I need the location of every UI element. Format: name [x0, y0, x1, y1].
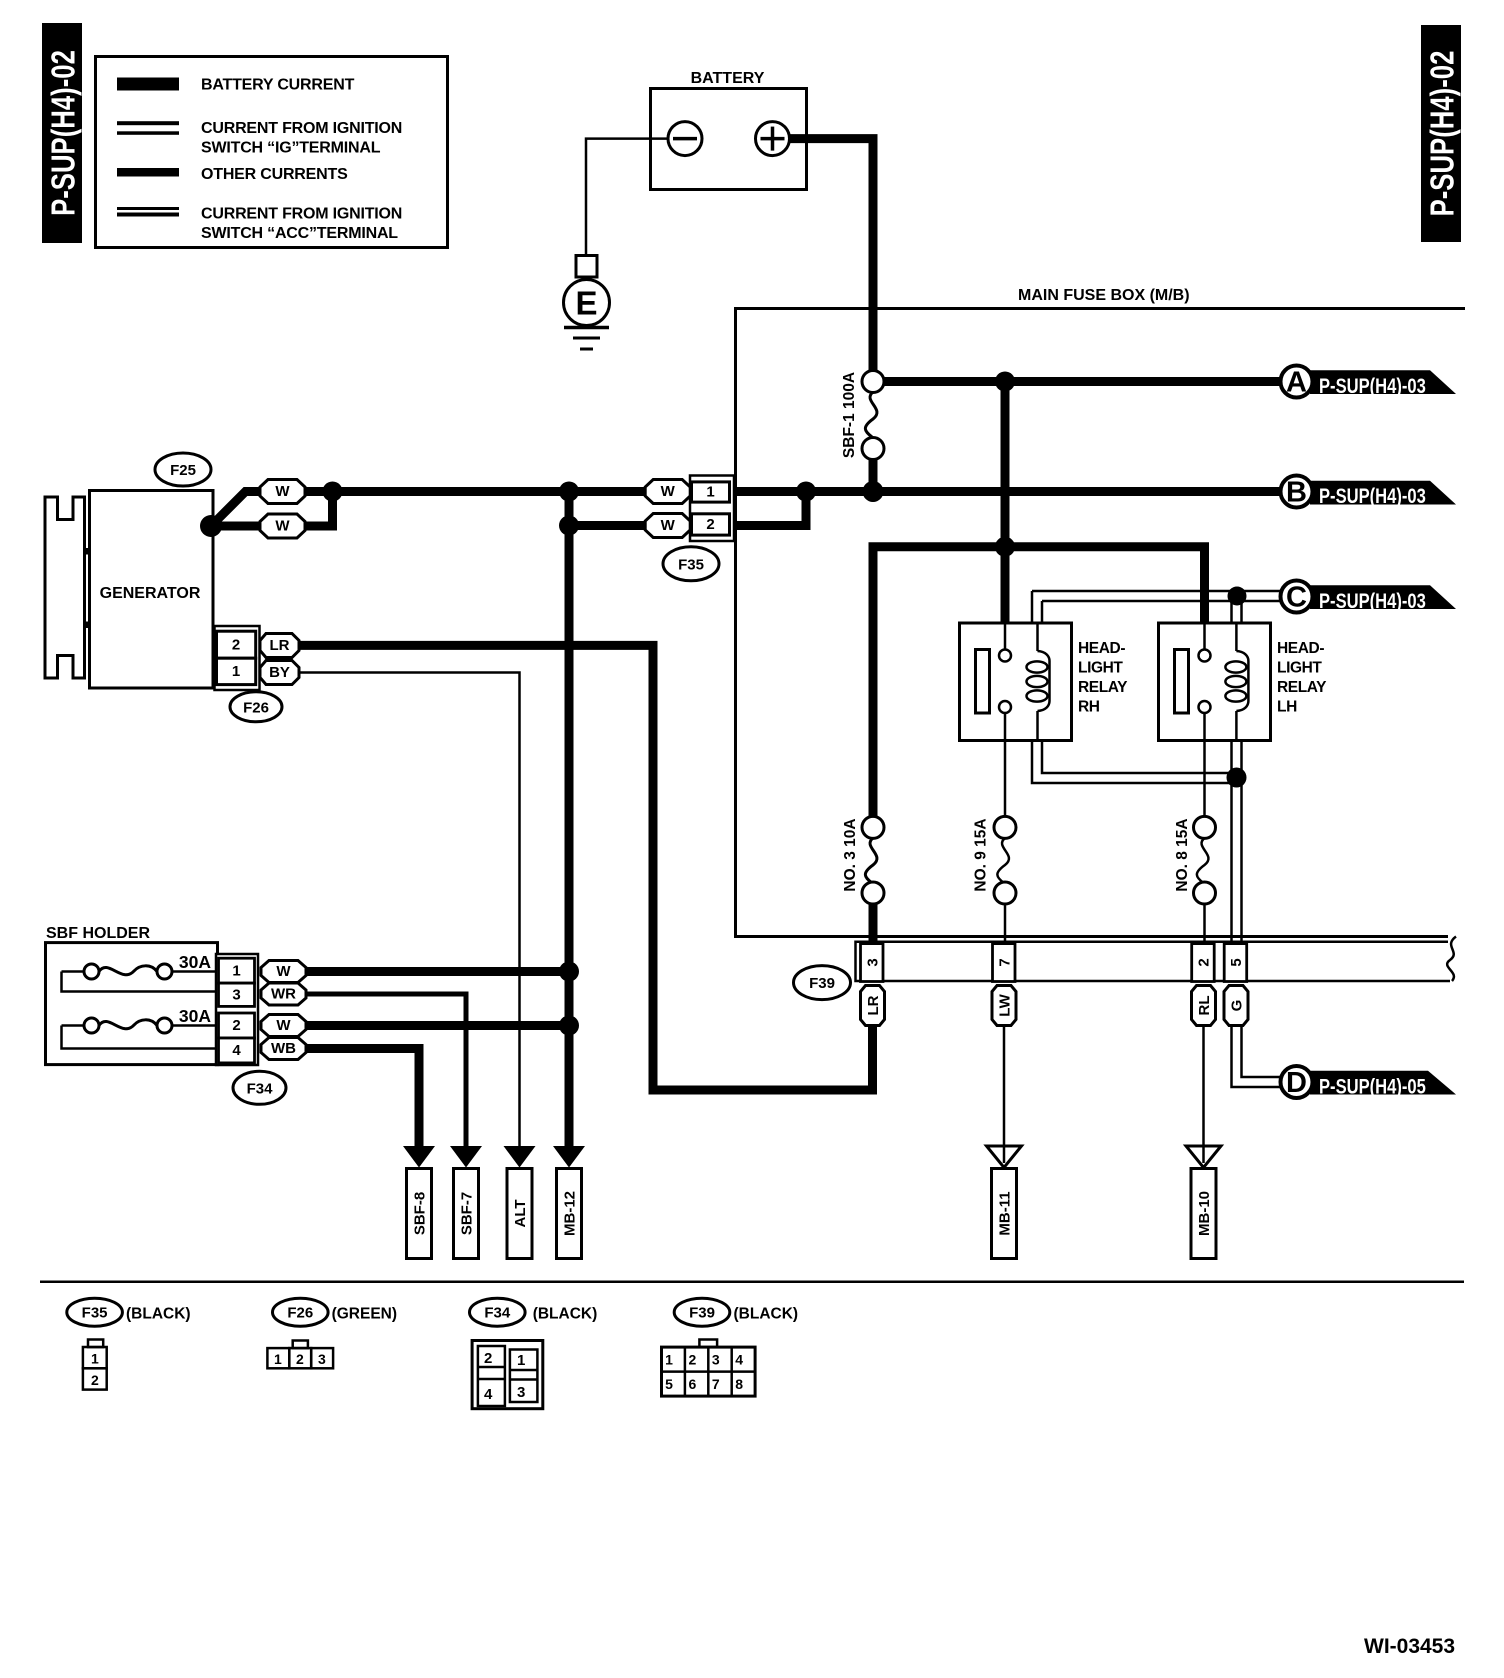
F25 label ellipse — [155, 453, 211, 486]
svg-text:LR: LR — [865, 995, 882, 1015]
ground E — [564, 256, 610, 350]
banner B P-SUP(H4)-03 — [1281, 476, 1457, 509]
svg-text:BY: BY — [269, 664, 290, 681]
wire color label WR — [261, 983, 306, 1005]
wire color label W (generator bottom) — [260, 514, 305, 538]
svg-text:(BLACK): (BLACK) — [734, 1306, 799, 1323]
svg-text:2: 2 — [484, 1350, 492, 1367]
battery minus terminal — [668, 122, 702, 156]
svg-text:RH: RH — [1078, 699, 1100, 716]
svg-text:SWITCH “IG”TERMINAL: SWITCH “IG”TERMINAL — [201, 140, 381, 157]
connector F39 bus outline — [856, 937, 1457, 982]
svg-text:1: 1 — [232, 663, 240, 680]
wire RL thin to MB-10 — [1202, 1026, 1205, 1147]
svg-text:3: 3 — [864, 958, 881, 966]
svg-text:1: 1 — [91, 1351, 99, 1367]
svg-text:W: W — [276, 963, 291, 980]
battery — [651, 70, 807, 190]
connector legend F34 (BLACK) — [470, 1298, 598, 1409]
svg-text:P-SUP(H4)-03: P-SUP(H4)-03 — [1319, 485, 1426, 508]
generator — [90, 491, 214, 689]
svg-text:F35: F35 — [678, 556, 704, 573]
svg-text:4: 4 — [232, 1042, 241, 1059]
svg-text:(GREEN): (GREEN) — [332, 1306, 397, 1323]
svg-text:NO. 8 15A: NO. 8 15A — [1174, 818, 1191, 891]
svg-text:6: 6 — [689, 1376, 697, 1392]
wire B (generator W wires to banner B) — [211, 492, 1281, 527]
node wire B / MB-12 — [559, 482, 579, 502]
svg-text:8: 8 — [735, 1376, 743, 1392]
svg-text:RELAY: RELAY — [1078, 679, 1128, 696]
svg-text:F34: F34 — [247, 1080, 274, 1097]
svg-text:F39: F39 — [689, 1305, 715, 1322]
svg-text:WR: WR — [271, 986, 296, 1003]
svg-text:2: 2 — [232, 637, 240, 654]
wire WB to SBF-8 — [306, 1049, 419, 1147]
svg-text:7: 7 — [712, 1376, 720, 1392]
F35 label ellipse — [663, 547, 719, 581]
wire battery minus to ground — [586, 139, 668, 256]
svg-text:W: W — [661, 517, 676, 534]
headlight relay LH — [1159, 623, 1328, 817]
title bar right P-SUP(H4)-02 — [1421, 25, 1461, 242]
svg-text:3: 3 — [232, 987, 240, 1004]
arrow SBF-8 — [403, 1146, 435, 1259]
headlight relay RH — [960, 623, 1129, 817]
svg-text:1: 1 — [517, 1352, 525, 1369]
wire WR to SBF-7 — [306, 994, 466, 1146]
bus pin 7 — [993, 944, 1016, 982]
wire battery plus to SBF-1 (thick) — [790, 139, 874, 371]
svg-text:P-SUP(H4)-05: P-SUP(H4)-05 — [1319, 1076, 1426, 1099]
svg-text:P-SUP(H4)-02: P-SUP(H4)-02 — [1425, 51, 1462, 217]
fuse NO. 3 10A — [842, 816, 884, 941]
svg-text:MB-11: MB-11 — [997, 1191, 1014, 1235]
svg-text:HEAD-: HEAD- — [1277, 640, 1324, 657]
connector F34 pin column — [216, 954, 258, 1065]
svg-text:1: 1 — [706, 484, 714, 501]
wire W pin1 to MB-12 vertical (thick) — [306, 967, 569, 976]
svg-text:W: W — [661, 483, 676, 500]
node coil return junction — [1227, 768, 1247, 788]
F26 label ellipse — [230, 692, 282, 722]
svg-text:SWITCH “ACC”TERMINAL: SWITCH “ACC”TERMINAL — [201, 225, 398, 242]
wire color label W (F34 pin2) — [261, 1015, 306, 1037]
svg-text:2: 2 — [706, 516, 714, 533]
connector F35 — [690, 476, 734, 542]
svg-text:SBF-7: SBF-7 — [459, 1192, 476, 1235]
wire C double line horizontal (IG style) — [1032, 590, 1281, 593]
svg-text:SBF-1 100A: SBF-1 100A — [841, 372, 858, 458]
svg-text:HEAD-: HEAD- — [1078, 640, 1125, 657]
node SBF-1 on wire B — [863, 481, 884, 502]
wire G double line to banner D — [1232, 1026, 1282, 1088]
svg-text:RELAY: RELAY — [1277, 679, 1327, 696]
wire LW thin to MB-11 — [1003, 1026, 1006, 1147]
connector legend F26 (GREEN) — [267, 1298, 397, 1368]
legend ACC double line — [117, 207, 179, 210]
svg-text:1: 1 — [274, 1351, 282, 1367]
banner C P-SUP(H4)-03 — [1281, 581, 1457, 614]
svg-text:P-SUP(H4)-03: P-SUP(H4)-03 — [1319, 590, 1426, 613]
wire A (battery current, SBF-1 to banner A) — [882, 377, 1281, 386]
svg-text:2: 2 — [296, 1351, 304, 1367]
F39 label ellipse — [794, 966, 851, 1000]
fuse NO. 9 15A — [973, 816, 1017, 941]
svg-text:ALT: ALT — [512, 1199, 529, 1227]
main fuse box — [736, 287, 1466, 937]
svg-text:G: G — [1229, 1000, 1246, 1012]
svg-text:NO. 9 15A: NO. 9 15A — [973, 818, 990, 891]
svg-text:1: 1 — [665, 1352, 673, 1368]
svg-text:F39: F39 — [809, 975, 835, 992]
svg-text:MB-10: MB-10 — [1196, 1191, 1213, 1236]
bus pin 3 — [861, 944, 884, 982]
wire from node A down to relay feed — [1001, 382, 1010, 547]
wire LR thick path pin3 to F26 LR — [299, 645, 873, 1090]
wire color label RL — [1192, 986, 1216, 1026]
wire color label LR (F26) — [260, 634, 299, 658]
svg-text:30A: 30A — [179, 952, 211, 972]
svg-text:CURRENT FROM IGNITION: CURRENT FROM IGNITION — [201, 206, 402, 223]
bus pin 5 — [1224, 944, 1247, 982]
generator edge nubs — [85, 548, 90, 555]
svg-text:2: 2 — [232, 1017, 240, 1034]
node W join — [323, 482, 343, 502]
svg-text:A: A — [1286, 367, 1307, 399]
legend other currents bar — [117, 168, 179, 177]
wire F35 pin2 riser — [569, 492, 806, 526]
wire C double line down to relay LH coil and bus pin 5 — [1230, 592, 1233, 942]
banner D P-SUP(H4)-05 — [1281, 1066, 1457, 1099]
SBF holder fuse 1 30A — [62, 952, 219, 992]
fuse SBF-1 100A — [841, 371, 884, 497]
node wire C junction — [1228, 587, 1247, 606]
svg-text:W: W — [275, 483, 290, 500]
wire BY thin to ALT — [299, 673, 520, 1147]
wire color label WB — [261, 1038, 306, 1060]
svg-text:4: 4 — [735, 1352, 743, 1368]
svg-text:F26: F26 — [243, 699, 269, 716]
wire color label LR — [861, 986, 885, 1026]
svg-text:W: W — [275, 518, 290, 535]
svg-text:2: 2 — [689, 1352, 697, 1368]
connector legend F39 (BLACK) — [662, 1298, 799, 1396]
relay feed wire (thick) — [873, 547, 1205, 817]
node W pin2 — [559, 1016, 579, 1036]
wire relay coil returns double line RH — [1032, 741, 1238, 784]
fuse NO. 8 15A — [1174, 816, 1216, 941]
svg-text:CURRENT FROM IGNITION: CURRENT FROM IGNITION — [201, 120, 402, 137]
svg-text:P-SUP(H4)-02: P-SUP(H4)-02 — [46, 50, 83, 216]
svg-text:RL: RL — [1196, 996, 1213, 1016]
svg-text:7: 7 — [996, 958, 1013, 966]
SBF holder fuse 2 30A — [62, 1006, 219, 1049]
connector F26 on generator — [215, 626, 260, 690]
legend IG double line — [117, 121, 179, 125]
svg-text:F26: F26 — [287, 1305, 313, 1322]
arrow SBF-7 — [450, 1146, 482, 1259]
svg-text:F34: F34 — [484, 1305, 511, 1322]
wire generator W lower branch — [211, 492, 333, 527]
arrow MB-12 — [553, 1146, 585, 1259]
svg-text:5: 5 — [665, 1376, 673, 1392]
title bar left P-SUP(H4)-02 — [42, 23, 82, 243]
banner A P-SUP(H4)-03 — [1281, 366, 1457, 399]
svg-text:MB-12: MB-12 — [562, 1191, 579, 1236]
arrow MB-11 (hollow) — [987, 1146, 1022, 1259]
bus pin 2 — [1192, 944, 1215, 982]
generator bracket — [45, 497, 85, 678]
node on wire A — [995, 372, 1015, 392]
svg-text:D: D — [1286, 1067, 1307, 1099]
wire color label W (F35 pin1) — [645, 480, 690, 504]
svg-text:LW: LW — [997, 993, 1014, 1016]
svg-text:P-SUP(H4)-03: P-SUP(H4)-03 — [1319, 375, 1426, 398]
svg-text:1: 1 — [232, 963, 240, 980]
svg-text:BATTERY: BATTERY — [691, 70, 765, 87]
svg-text:LIGHT: LIGHT — [1277, 660, 1322, 677]
legend battery current bar — [117, 78, 179, 91]
svg-text:LIGHT: LIGHT — [1078, 660, 1123, 677]
legend box — [96, 57, 448, 248]
arrow MB-10 (hollow) — [1186, 1146, 1221, 1259]
node relay feed T — [995, 537, 1015, 557]
svg-text:F25: F25 — [170, 462, 196, 479]
svg-text:W: W — [276, 1017, 291, 1034]
node W pin1 — [559, 962, 579, 982]
wire C double line down to relay RH coil — [1031, 591, 1034, 623]
wire color label LW — [992, 986, 1016, 1026]
node generator output — [200, 515, 222, 537]
svg-text:(BLACK): (BLACK) — [126, 1306, 191, 1323]
svg-text:C: C — [1286, 582, 1307, 614]
svg-text:F35: F35 — [82, 1305, 108, 1322]
svg-text:SBF HOLDER: SBF HOLDER — [46, 925, 150, 942]
wire color label W (F34 pin1) — [261, 961, 306, 983]
wire color label W (F35 pin2) — [645, 514, 690, 538]
wire color label BY (F26) — [260, 661, 299, 685]
svg-text:BATTERY CURRENT: BATTERY CURRENT — [201, 77, 355, 94]
svg-text:WI-03453: WI-03453 — [1364, 1635, 1455, 1658]
wire MB-12 vertical — [565, 492, 574, 1147]
svg-text:LR: LR — [270, 637, 290, 654]
svg-text:(BLACK): (BLACK) — [533, 1306, 598, 1323]
svg-text:B: B — [1286, 477, 1307, 509]
F34 label ellipse — [233, 1071, 286, 1104]
node pin2 on MB-12 vertical — [559, 516, 579, 536]
svg-text:NO. 3 10A: NO. 3 10A — [842, 818, 859, 891]
svg-text:3: 3 — [517, 1384, 525, 1401]
svg-text:LH: LH — [1277, 699, 1297, 716]
node pin2 riser on wire B — [796, 482, 816, 502]
arrow ALT — [504, 1146, 536, 1259]
svg-text:SBF-8: SBF-8 — [412, 1192, 429, 1235]
svg-text:30A: 30A — [179, 1006, 211, 1026]
relay RH feed branch — [1001, 547, 1010, 623]
svg-text:5: 5 — [1228, 958, 1245, 966]
wire W pin2 to MB-12 vertical (thick) — [306, 1021, 569, 1030]
bottom separator line — [40, 1281, 1464, 1284]
wire color label G — [1224, 986, 1248, 1026]
wire color label W (generator top) — [260, 480, 305, 504]
svg-text:2: 2 — [1195, 958, 1212, 966]
svg-text:OTHER CURRENTS: OTHER CURRENTS — [201, 166, 348, 183]
svg-text:MAIN FUSE BOX (M/B): MAIN FUSE BOX (M/B) — [1018, 287, 1190, 304]
battery plus terminal — [756, 122, 790, 156]
svg-text:3: 3 — [712, 1352, 720, 1368]
svg-text:4: 4 — [484, 1386, 493, 1403]
svg-text:2: 2 — [91, 1372, 99, 1388]
SBF holder — [46, 925, 218, 1065]
connector legend F35 (BLACK) — [67, 1298, 191, 1389]
svg-text:GENERATOR: GENERATOR — [100, 585, 201, 602]
svg-text:3: 3 — [318, 1351, 326, 1367]
svg-text:E: E — [575, 285, 597, 322]
svg-text:WB: WB — [271, 1040, 296, 1057]
